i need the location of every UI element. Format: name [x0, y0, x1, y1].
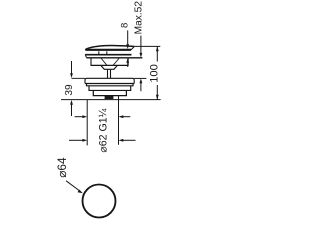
circle dia64 [83, 185, 116, 218]
extension line from dome top [134, 45, 160, 47]
skirt bottom [91, 64, 129, 66]
dim 39 lower arrow [71, 104, 73, 116]
valve cap dome bottom edge [85, 49, 131, 51]
svg-text:⌀62 G1¼: ⌀62 G1¼ [97, 108, 109, 152]
dim dia62 line (lower) [69, 139, 136, 142]
dim 39 upper arrow [70, 61, 73, 116]
svg-text:39: 39 [64, 84, 75, 96]
dim 8 lower arrow [127, 63, 129, 68]
svg-text:100: 100 [148, 64, 160, 83]
bottom protrusion [105, 96, 114, 99]
valve cap dome top [85, 46, 134, 50]
body nut [93, 90, 126, 95]
body mid [89, 86, 131, 91]
cap nut [99, 51, 107, 54]
funnel left [101, 58, 107, 65]
cup below skirt [101, 66, 117, 70]
seat plate left cap [85, 55, 86, 58]
dim Max.52 upper arrow [134, 36, 146, 92]
dim G1-1/4 line (upper) [75, 115, 131, 118]
dome right tip close [131, 47, 134, 50]
seat plate bottom line + right tick to Max52 [87, 57, 143, 59]
dim 100 line [156, 46, 159, 99]
svg-text:Max.52: Max.52 [134, 1, 145, 35]
datum line [61, 99, 161, 101]
seat plate top line [85, 54, 131, 56]
body flange [85, 78, 134, 83]
leader dia64 [66, 181, 83, 194]
stem [108, 69, 111, 78]
dim Max.52 lower arrow [140, 83, 142, 92]
ext line G114 right [118, 96, 120, 145]
body collar [87, 84, 134, 86]
skirt right wall [127, 58, 129, 66]
svg-text:⌀64: ⌀64 [55, 157, 69, 178]
svg-text:8: 8 [119, 23, 130, 28]
skirt left wall [90, 58, 92, 66]
ext line dia62 left [86, 100, 88, 145]
body flange bottom line [85, 83, 134, 85]
dim 8 upper arrow [126, 30, 129, 67]
tick flange top right [134, 77, 146, 79]
tick flange top left [72, 77, 86, 79]
funnel right [113, 58, 119, 65]
